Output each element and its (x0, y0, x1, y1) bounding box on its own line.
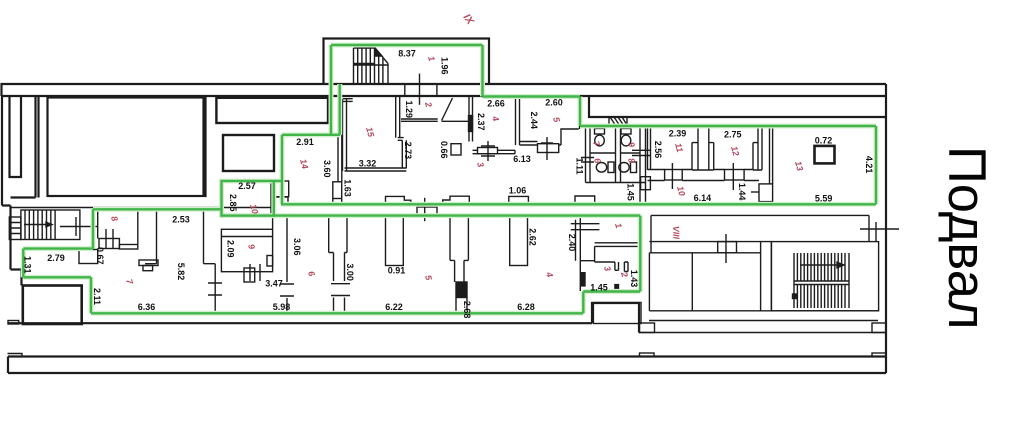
svg-text:2.57: 2.57 (238, 181, 256, 191)
bump-out walls top (324, 39, 490, 85)
top outer wall band (2, 84, 887, 96)
svg-text:Подвал: Подвал (937, 146, 996, 330)
svg-text:2.40: 2.40 (567, 234, 577, 252)
long rectangle top right (589, 97, 886, 118)
jog box at bottom (entry) (593, 303, 641, 324)
room 15 walls (333, 96, 407, 199)
svg-text:6.22: 6.22 (385, 302, 403, 312)
svg-text:2.11: 2.11 (92, 288, 102, 305)
toilet symbols (595, 129, 637, 173)
corridor bumps above green line (275, 196, 595, 205)
svg-text:1.45: 1.45 (590, 283, 608, 293)
svg-text:2.53: 2.53 (172, 215, 190, 225)
svg-text:8.37: 8.37 (398, 49, 416, 59)
0.72 shaft box (815, 146, 835, 164)
svg-text:0.67: 0.67 (95, 247, 105, 265)
room 10 black box (223, 182, 271, 216)
rooms 11/12 walls (648, 125, 773, 202)
bottom thin band full width (8, 353, 887, 373)
svg-text:5.59: 5.59 (815, 194, 833, 204)
svg-text:1.06: 1.06 (509, 186, 527, 196)
partition P3 (room5/4) (450, 217, 468, 314)
svg-text:1.29: 1.29 (404, 101, 414, 119)
svg-text:2.66: 2.66 (487, 99, 505, 109)
green overlay (23, 45, 876, 313)
svg-text:2.68: 2.68 (462, 301, 472, 319)
svg-text:1.63: 1.63 (343, 179, 353, 197)
svg-text:1.43: 1.43 (629, 270, 639, 288)
small rectangle below (223, 135, 274, 171)
room 4 bottom wall and door (473, 141, 516, 161)
svg-text:2.73: 2.73 (403, 142, 413, 160)
red room labels (109, 12, 805, 286)
svg-text:6.13: 6.13 (513, 154, 531, 164)
svg-text:2.60: 2.60 (545, 98, 563, 108)
svg-text:2.56: 2.56 (653, 141, 663, 159)
svg-text:3.32: 3.32 (359, 159, 377, 169)
stairs left block (9, 210, 80, 240)
rooms 4/5 divider (516, 96, 520, 145)
black box right of room10 (275, 181, 289, 197)
svg-text:3.47: 3.47 (265, 279, 283, 289)
door ticks right of stairs (60, 217, 97, 236)
room 2 walls (401, 98, 470, 121)
svg-text:6.14: 6.14 (694, 193, 712, 203)
step bottom-left (8, 321, 19, 325)
green overlay glow (23, 45, 876, 313)
svg-text:3.00: 3.00 (345, 263, 355, 281)
rooms below VIII (649, 242, 878, 311)
room 9 (221, 229, 272, 282)
big top-left room (48, 98, 206, 197)
svg-text:2.79: 2.79 (47, 253, 65, 263)
top-left rectangle 2 (216, 98, 328, 123)
wall chunk below room 8 (145, 208, 222, 314)
hatched shaft above toilets (609, 117, 627, 126)
partition P5 and room 1 door (571, 218, 600, 261)
pillar boxes on room 7 top (79, 250, 98, 264)
bottom-left small building rect (23, 286, 82, 325)
dimension texts rotated 90 (23, 57, 875, 318)
bottom-right stair block (771, 242, 878, 311)
svg-text:5.82: 5.82 (176, 263, 186, 281)
rooms 1/2/3 block lower (580, 243, 637, 291)
svg-text:6.36: 6.36 (138, 302, 156, 312)
svg-text:3.06: 3.06 (292, 238, 302, 256)
left outer wall and slot (2, 96, 39, 286)
svg-text:3.60: 3.60 (322, 160, 332, 178)
svg-text:2.39: 2.39 (669, 129, 687, 139)
pillar 0.91 (386, 217, 404, 266)
svg-text:0.66: 0.66 (439, 141, 449, 159)
corridor top line left (11, 207, 273, 209)
svg-text:1.45: 1.45 (626, 183, 636, 201)
corridor door cross near 1.06 (417, 198, 437, 221)
svg-text:2.91: 2.91 (296, 137, 314, 147)
svg-text:1.31: 1.31 (23, 256, 33, 274)
right section bottom band (639, 321, 886, 333)
right outer wall (885, 84, 887, 373)
partition P1 below corridor (room6/5) (329, 217, 350, 314)
svg-text:6.28: 6.28 (517, 302, 535, 312)
svg-text:2.37: 2.37 (476, 113, 486, 131)
VIII corridor walls (649, 215, 899, 263)
bump-out stairs (354, 48, 389, 84)
room 5 bottom wall, door, step (520, 97, 580, 161)
svg-text:1.96: 1.96 (440, 57, 450, 75)
svg-text:5.98: 5.98 (273, 302, 291, 312)
box below toilets right (641, 177, 651, 190)
svg-text:2.09: 2.09 (226, 240, 236, 258)
toilets block (581, 125, 651, 204)
svg-text:4.21: 4.21 (864, 156, 874, 174)
svg-text:1.11: 1.11 (575, 158, 585, 175)
svg-text:0.72: 0.72 (815, 136, 833, 146)
room 3/4 left wall and pier (469, 96, 473, 142)
dimension texts horizontal (47, 49, 832, 313)
svg-text:0.91: 0.91 (388, 266, 406, 276)
svg-text:VIII: VIII (671, 226, 681, 240)
corridor wall right of room 9 (273, 217, 294, 314)
svg-text:2.44: 2.44 (529, 112, 539, 130)
svg-text:2.75: 2.75 (724, 130, 742, 140)
room 8 black walls (98, 208, 138, 250)
main bottom wall left section (8, 303, 639, 333)
svg-text:2.62: 2.62 (528, 228, 538, 246)
svg-text:2.85: 2.85 (228, 194, 238, 212)
0.66 box (451, 144, 461, 155)
partition P4 (2.62) (510, 217, 528, 266)
svg-text:1.44: 1.44 (737, 183, 747, 201)
door tick room2 top (405, 74, 437, 105)
